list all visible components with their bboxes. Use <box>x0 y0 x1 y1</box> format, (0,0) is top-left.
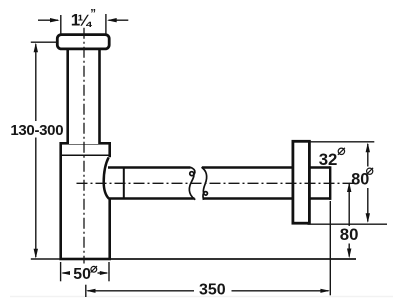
dim 350: extension lines <box>85 285 87 297</box>
dim 80: dimension line <box>348 184 350 226</box>
faint table border line <box>10 296 393 298</box>
pipe break symbol (left piece) <box>189 167 195 199</box>
svg-text:”: ” <box>90 9 96 21</box>
union nut (top) <box>57 35 109 49</box>
wall flange / rosette <box>293 141 310 223</box>
dim 350: shafts <box>88 290 195 292</box>
svg-text:80: 80 <box>340 225 359 244</box>
diameter symbols (circle + slash) <box>91 148 374 273</box>
dim 80dia: extension lines <box>310 141 374 143</box>
130-300 arrows <box>34 43 38 53</box>
svg-text:32: 32 <box>319 150 338 169</box>
trap body (bottle) <box>61 143 110 259</box>
80dia arrows <box>366 143 370 153</box>
dim 1-1/4": dimension line shafts <box>38 19 58 21</box>
1-1/4 arrows <box>50 18 60 22</box>
50 arrows <box>61 271 70 275</box>
svg-text:50: 50 <box>73 266 91 283</box>
svg-text:130-300: 130-300 <box>10 122 63 139</box>
dim 50: extension lines <box>60 262 62 281</box>
dia after 50 <box>91 266 97 272</box>
dim 1-1/4": extension lines <box>60 15 62 34</box>
dim 80dia: dimension line <box>367 144 369 167</box>
pipe break symbol (right piece) <box>202 167 208 200</box>
dim 130-300: extension line top <box>31 41 58 43</box>
centerline horizontal (dash-dot) <box>77 182 357 184</box>
dim 130-300: dimension line <box>35 44 37 121</box>
horizontal outlet pipe: right segment <box>202 166 330 200</box>
vertical inlet pipe <box>68 49 100 144</box>
bottom reference line (left of body) <box>31 258 60 260</box>
dim 50: shafts <box>63 272 70 274</box>
dia after 80 <box>367 168 373 174</box>
svg-text:350: 350 <box>199 281 226 298</box>
centerline vertical (dash-dot) <box>83 28 85 264</box>
350 arrows <box>86 289 96 293</box>
svg-text:80: 80 <box>351 171 369 189</box>
dia after 32 <box>338 148 344 154</box>
horizontal outlet pipe: left segment with rounded cap <box>104 157 195 199</box>
80 arrows <box>347 182 351 192</box>
bottom reference line (right of body, long) <box>111 258 357 260</box>
arrowheads <box>34 18 370 293</box>
